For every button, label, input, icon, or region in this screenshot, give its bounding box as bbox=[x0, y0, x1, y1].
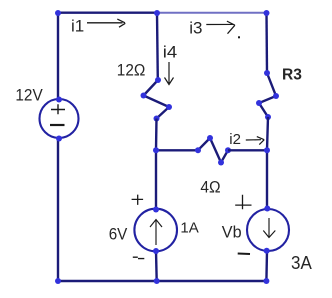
Vb minus sign bbox=[238, 253, 250, 256]
wire R3 bottom lead to right-middle node bbox=[267, 117, 268, 150]
wire middle horizontal left (middle node to 4Ω left) bbox=[156, 149, 198, 151]
wire middle mid (middle node down to 6V source top) bbox=[155, 150, 157, 210]
resistor R3 zigzag with vertex dots bbox=[256, 70, 279, 120]
svg-text:i2: i2 bbox=[229, 131, 241, 148]
node top-left junction dot bbox=[55, 10, 61, 16]
12V minus sign bbox=[50, 124, 65, 126]
svg-text:Vb: Vb bbox=[222, 223, 242, 242]
source 6V/1A circle bbox=[134, 209, 177, 252]
node top-middle junction dot bbox=[154, 10, 160, 16]
svg-text:1A: 1A bbox=[180, 220, 198, 237]
wire bottom (bottom-left to bottom-right) bbox=[58, 280, 267, 282]
svg-text:3A: 3A bbox=[291, 253, 312, 273]
stray dot after i3 arrow bbox=[238, 36, 240, 38]
12V plus sign bbox=[51, 104, 65, 114]
svg-text:i3: i3 bbox=[189, 19, 202, 38]
Vb source arrow (points down) bbox=[263, 218, 275, 238]
node top-right junction dot bbox=[264, 10, 270, 16]
resistor 4Ω zigzag with vertex dots bbox=[195, 135, 231, 166]
current arrow i4 (points down) bbox=[165, 62, 174, 85]
6V plus sign bbox=[132, 195, 144, 205]
svg-text:12V: 12V bbox=[15, 86, 42, 104]
6V source arrow (points up) bbox=[150, 220, 162, 246]
node bottom-right junction dot bbox=[263, 278, 269, 284]
svg-text:6V: 6V bbox=[109, 225, 128, 244]
node right-middle junction dot bbox=[264, 147, 270, 153]
wire top segment left (top-left node to top-middle node) bbox=[58, 11, 157, 13]
node 6V top terminal dot bbox=[153, 207, 159, 213]
wire top segment right (top-middle to top-right, lighter) bbox=[157, 12, 267, 14]
6V minus sign bbox=[133, 257, 145, 258]
current arrow i2 bbox=[246, 137, 264, 145]
node 12V top terminal dot bbox=[56, 97, 62, 103]
svg-text:i1: i1 bbox=[71, 17, 84, 36]
wire middle horizontal right (4Ω right to right-middle node) bbox=[228, 149, 267, 151]
node Vb bottom terminal dot bbox=[264, 248, 270, 254]
wire 6V source bottom lead to bottom wire bbox=[155, 251, 158, 281]
node bottom-middle junction dot bbox=[154, 278, 160, 284]
node middle junction dot bbox=[153, 147, 159, 153]
resistor 12Ω zigzag with vertex dots bbox=[141, 77, 173, 122]
svg-text:12Ω: 12Ω bbox=[117, 60, 146, 79]
Vb plus sign bbox=[235, 195, 251, 210]
wire middle top stub (top-middle node down to 12Ω top) bbox=[156, 13, 159, 80]
wire right top stub (top-right node down to R3 top) bbox=[265, 13, 268, 73]
wire right mid (right-middle node down to Vb source top) bbox=[266, 150, 268, 210]
svg-text:i4: i4 bbox=[163, 42, 177, 61]
wire Vb source bottom lead to bottom-right node bbox=[265, 251, 268, 281]
wire left upper (top-left node down to 12V source top) bbox=[57, 13, 59, 100]
svg-text:4Ω: 4Ω bbox=[200, 177, 220, 196]
current arrow i3 bbox=[206, 21, 235, 34]
svg-text:R3: R3 bbox=[282, 67, 302, 84]
node bottom-left junction dot bbox=[55, 278, 61, 284]
source Vb/3A circle bbox=[247, 209, 289, 251]
node 12V bottom terminal dot bbox=[56, 136, 62, 142]
current arrow i1 bbox=[87, 19, 125, 27]
voltage source 12V circle bbox=[40, 99, 79, 138]
node Vb top terminal dot bbox=[264, 206, 270, 212]
node 6V bottom terminal dot bbox=[153, 248, 159, 254]
wire left lower (12V source bottom to bottom-left node) bbox=[57, 138, 59, 281]
wire 12Ω bottom lead to middle node bbox=[155, 119, 158, 151]
